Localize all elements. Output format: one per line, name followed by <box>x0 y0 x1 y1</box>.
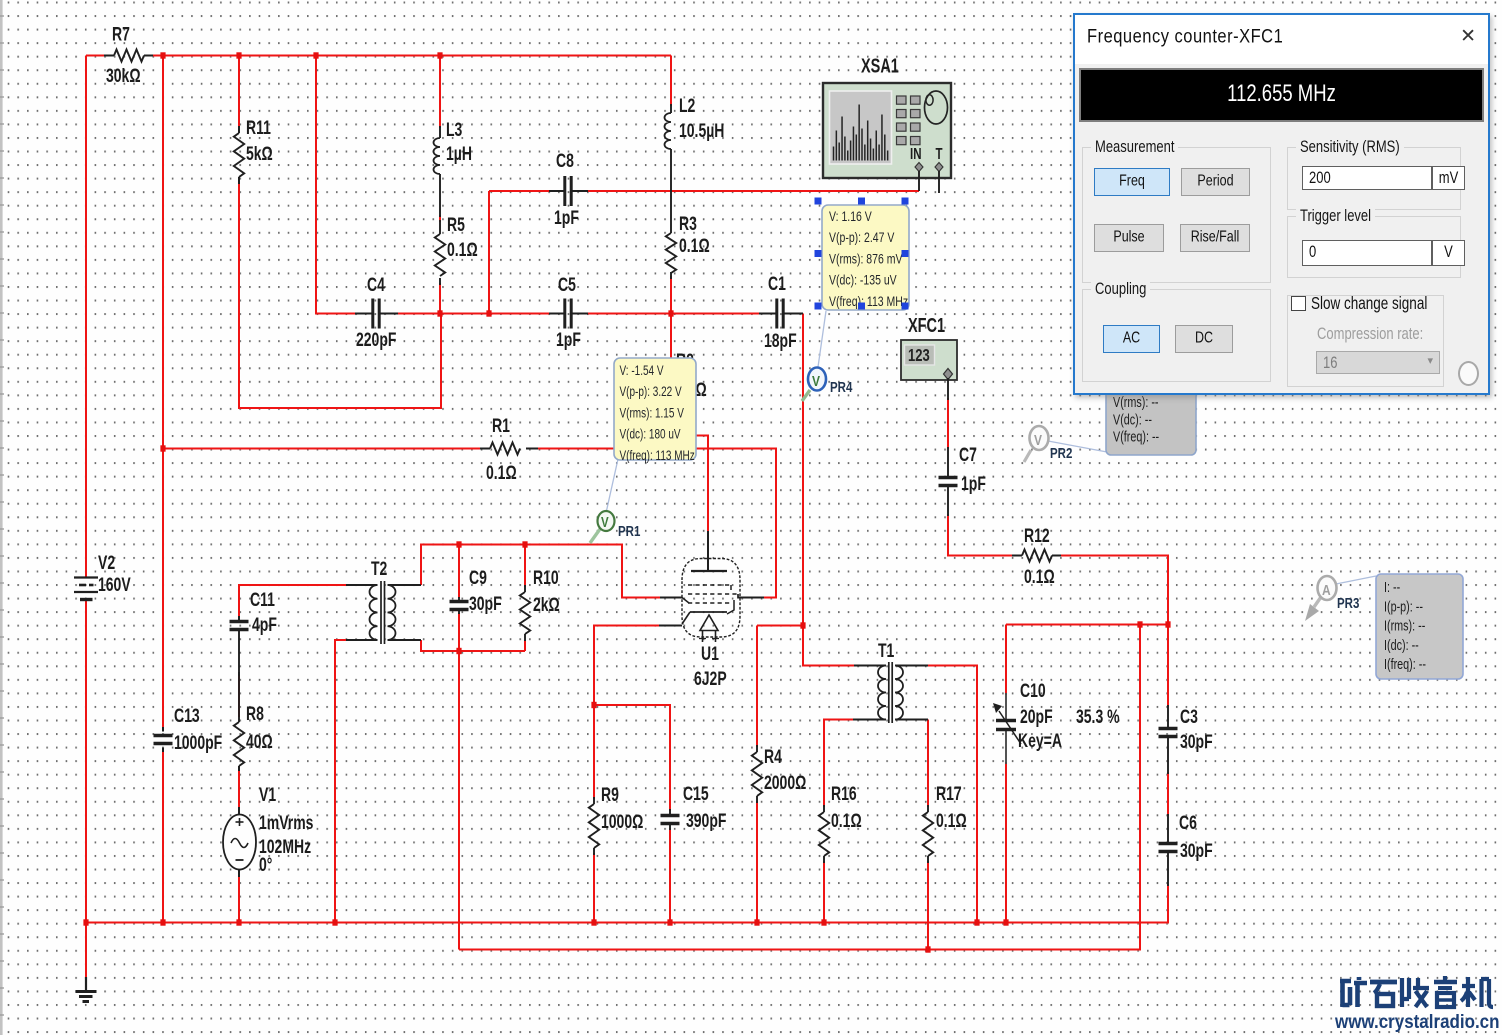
junction node (335,922.5) <box>332 919 337 925</box>
resistor R9 1000 <box>593 797 595 804</box>
svg-text:0.1Ω: 0.1Ω <box>1024 566 1055 588</box>
svg-text:2000Ω: 2000Ω <box>764 772 806 794</box>
wire left rail x=86 (V2 branch) <box>85 56 87 578</box>
resistor R12 0.1 <box>1012 555 1022 557</box>
svg-text:R8: R8 <box>246 703 264 725</box>
svg-text:5kΩ: 5kΩ <box>246 143 273 165</box>
junction node (489,313.5) <box>486 310 491 316</box>
svg-text:18pF: 18pF <box>764 330 797 352</box>
junction node (671,313.5) <box>668 310 673 316</box>
resistor R7 30k <box>104 55 114 57</box>
svg-text:0.1Ω: 0.1Ω <box>936 810 967 832</box>
svg-text:C4: C4 <box>367 274 385 296</box>
wire rail x=671 (L2/R3/R2 plate rail) <box>670 56 672 107</box>
XSA1 IN lead <box>918 171 920 191</box>
svg-text:220pF: 220pF <box>356 329 396 351</box>
svg-text:C3: C3 <box>1180 706 1198 728</box>
inductor L2 10.5uH <box>670 104 672 113</box>
svg-text:0.1Ω: 0.1Ω <box>831 810 862 832</box>
svg-text:R12: R12 <box>1024 525 1050 547</box>
wire C10 branch x=1006 <box>1005 625 1007 696</box>
capacitor C4 220pF <box>355 313 373 315</box>
svg-text:0.1Ω: 0.1Ω <box>447 239 478 261</box>
svg-text:R10: R10 <box>533 567 559 589</box>
svg-text:V2: V2 <box>98 552 115 574</box>
svg-text:V(rms): 1.15 V: V(rms): 1.15 V <box>620 405 684 421</box>
wire C8 row y=191 to XSA1 IN <box>489 190 549 192</box>
svg-text:PR1: PR1 <box>618 523 641 540</box>
svg-text:10.5µH: 10.5µH <box>679 120 724 142</box>
PR4 selection handles <box>815 198 822 205</box>
svg-text:C6: C6 <box>1179 812 1197 834</box>
wire top V+ rail y=55.5 <box>86 55 106 57</box>
svg-text:1pF: 1pF <box>961 473 986 495</box>
wire C11-R8-V1 chain x=239 <box>238 674 240 717</box>
junction node (803,625.5) <box>800 622 805 628</box>
resistor R17 0.1 <box>927 805 929 812</box>
svg-text:V(freq): 113 MHz: V(freq): 113 MHz <box>829 293 908 309</box>
wire T2 primary bottom to bus <box>335 640 346 923</box>
junction node (440,313.5) <box>437 310 442 316</box>
wire y=624.5 tie row <box>1006 624 1168 626</box>
tube heater <box>700 615 718 631</box>
capacitor C8 1pF <box>549 190 565 192</box>
svg-text:C15: C15 <box>683 783 709 805</box>
junction node (977,922.5) <box>974 919 979 925</box>
svg-text:A: A <box>1322 582 1331 599</box>
wire rail x=163 (R1 tap / C13) <box>162 56 164 729</box>
svg-text:C5: C5 <box>558 274 576 296</box>
probe data box PR3 (gray) <box>1376 574 1463 679</box>
svg-text:L2: L2 <box>679 95 695 117</box>
wire rail x=440 (L3/R5) <box>439 56 441 129</box>
probe PR4 (blue V) <box>818 311 826 367</box>
tube grid2 pin right <box>737 594 739 599</box>
svg-text:V: V <box>812 373 820 390</box>
svg-text:T1: T1 <box>878 640 894 662</box>
wire T2 primary top (C11 branch) <box>239 585 346 618</box>
svg-text:I(dc): --: I(dc): -- <box>1384 636 1419 653</box>
svg-text:160V: 160V <box>98 574 131 596</box>
svg-text:R11: R11 <box>246 117 271 139</box>
tube grid pin left <box>660 597 682 599</box>
XFC1 pin <box>944 369 953 380</box>
svg-text:I(p-p): --: I(p-p): -- <box>1384 598 1423 615</box>
tube grids (dashed) <box>688 584 731 586</box>
probe PR3 (gray A) <box>1336 576 1376 584</box>
wire R12 to C3 drop <box>1059 556 1168 625</box>
resistor R10 2k <box>524 585 526 592</box>
svg-text:C10: C10 <box>1020 680 1046 702</box>
vacuum tube U1 6J2P <box>682 559 740 638</box>
resistor R1 0.1 <box>480 448 490 450</box>
svg-text:1000pF: 1000pF <box>174 732 222 754</box>
wire rail x=239 (R11 branch) <box>238 56 240 129</box>
svg-text:6J2P: 6J2P <box>694 668 727 690</box>
svg-text:V: -1.54 V: V: -1.54 V <box>620 362 664 378</box>
svg-text:V(dc): -135 uV: V(dc): -135 uV <box>829 272 897 288</box>
transformer T1 <box>854 665 886 667</box>
svg-text:30pF: 30pF <box>1180 731 1213 753</box>
capacitor C1 18pF <box>759 313 777 315</box>
XSA1 IN pin <box>915 163 923 172</box>
ac source V1 1mVrms 102MHz <box>238 807 240 815</box>
svg-text:www.crystalradio.cn: www.crystalradio.cn <box>1334 1010 1499 1032</box>
svg-text:C8: C8 <box>556 150 574 172</box>
svg-text:30kΩ: 30kΩ <box>106 65 141 87</box>
wire rail x=316 to C4 <box>316 56 355 314</box>
svg-text:V(p-p): 2.47 V: V(p-p): 2.47 V <box>829 230 895 246</box>
svg-text:C13: C13 <box>174 705 200 727</box>
wire XFC1 to C7 <box>947 398 949 449</box>
junction node (163,55.5) <box>160 52 165 58</box>
tube cathode pin <box>659 625 682 627</box>
wire R10 branch x=525 <box>524 545 526 588</box>
junction node (670,922.5) <box>667 919 672 925</box>
XSA1 T pin <box>935 163 943 172</box>
XSA1 T stub <box>938 171 940 193</box>
svg-text:C1: C1 <box>768 273 786 295</box>
canvas left edge strip <box>0 0 3 1035</box>
svg-text:Key=A: Key=A <box>1018 730 1062 752</box>
inductor L3 1uH <box>439 126 441 138</box>
svg-text:2kΩ: 2kΩ <box>533 594 560 616</box>
svg-text:V: 1.16 V: V: 1.16 V <box>829 208 872 224</box>
svg-text:V(rms): 876 mV: V(rms): 876 mV <box>829 251 903 267</box>
svg-text:V(rms): --: V(rms): -- <box>1113 393 1159 410</box>
svg-text:R3: R3 <box>679 213 697 235</box>
resistor R3 0.1 <box>670 272 672 279</box>
junction node (1168,624.5) <box>1165 621 1170 627</box>
junction node (440,55.5) <box>437 52 442 58</box>
wire C7 to R12 row <box>948 514 1013 556</box>
svg-text:T2: T2 <box>371 558 387 580</box>
junction node (459,651) <box>456 648 461 654</box>
svg-text:V: V <box>601 514 609 531</box>
svg-text:R7: R7 <box>112 23 130 45</box>
junction node (163,922.5) <box>160 919 165 925</box>
capacitor C7 1pF <box>947 447 949 478</box>
capacitor C3 30pF <box>1167 705 1169 729</box>
junction node (86,922.5) <box>83 919 88 925</box>
svg-text:V(dc): 180 uV: V(dc): 180 uV <box>620 426 681 442</box>
wire C1 to T1 drop x=803 <box>803 314 854 666</box>
svg-text:1µH: 1µH <box>446 143 472 165</box>
junction node (1140,624.5) <box>1137 621 1142 627</box>
spectrum analyzer XSA1 <box>823 83 951 178</box>
svg-text:V(p-p): 3.22 V: V(p-p): 3.22 V <box>620 384 682 400</box>
svg-text:R5: R5 <box>447 214 465 236</box>
probe data box PR4 (yellow, selected) <box>822 205 909 310</box>
wire screen tap to R4 <box>757 625 803 627</box>
svg-text:4pF: 4pF <box>252 614 277 636</box>
ground symbol <box>85 977 87 991</box>
wire hidden corner to tube plate <box>696 436 708 532</box>
svg-text:0.1Ω: 0.1Ω <box>486 462 517 484</box>
wire tube cathode to R9/C15 <box>594 626 659 706</box>
svg-text:L3: L3 <box>446 119 462 141</box>
wire T1 secondary bottom to R17 <box>927 720 929 808</box>
junction node (594,922.5) <box>591 919 596 925</box>
svg-text:IN: IN <box>910 144 921 162</box>
svg-text:PR3: PR3 <box>1337 595 1359 612</box>
svg-text:R4: R4 <box>764 746 782 768</box>
junction node (459,544.5) <box>456 541 461 547</box>
wire R9 branch <box>593 705 595 799</box>
junction node (824,922.5) <box>821 919 826 925</box>
transformer T2 <box>346 584 378 586</box>
wire T1 secondary top to right drop <box>928 666 977 923</box>
capacitor C9 30pF <box>458 597 460 602</box>
wire cathode rail x=459 down to bus2 <box>458 651 460 950</box>
junction node (757,922.5) <box>754 919 759 925</box>
svg-text:C9: C9 <box>469 567 487 589</box>
capacitor C5 1pF <box>549 313 565 315</box>
resistor R11 5k <box>238 126 240 133</box>
resistor R8 40 <box>238 672 240 722</box>
svg-text:V: V <box>1034 432 1042 449</box>
svg-text:1pF: 1pF <box>556 329 581 351</box>
capacitor C13 1000pF <box>162 727 164 732</box>
svg-text:I(freq): --: I(freq): -- <box>1384 656 1426 673</box>
junction node (594,705) <box>591 702 596 708</box>
wire C4-C5-C1 row y=313.5 <box>397 313 549 315</box>
svg-text:C7: C7 <box>959 444 977 466</box>
capacitor C11 4pF <box>238 616 240 622</box>
junction node (928,949.5) <box>925 946 930 952</box>
junction node (316,55.5) <box>313 52 318 58</box>
svg-text:V1: V1 <box>259 784 276 806</box>
wire rail x=489 (C8 left leg) <box>488 191 490 314</box>
svg-text:35.3 %: 35.3 % <box>1076 706 1120 728</box>
junction node (239,922.5) <box>236 919 241 925</box>
capacitor C6 30pF <box>1167 814 1169 844</box>
svg-text:1pF: 1pF <box>554 207 579 229</box>
svg-text:20pF: 20pF <box>1020 706 1053 728</box>
variable capacitor C10 20pF Key=A <box>1005 693 1007 721</box>
svg-text:I: --: I: -- <box>1384 578 1400 595</box>
svg-text:R17: R17 <box>936 783 962 805</box>
svg-text:R1: R1 <box>492 415 510 437</box>
svg-text:0.1Ω: 0.1Ω <box>679 235 710 257</box>
svg-text:30pF: 30pF <box>469 593 502 615</box>
wire ground stub below bus <box>85 923 87 980</box>
probe data box PR1 (yellow) <box>614 358 696 460</box>
wire T1 primary bottom to R16 <box>824 720 853 808</box>
svg-text:30pF: 30pF <box>1180 840 1213 862</box>
frequency counter dialog XFC1 <box>1073 13 1490 395</box>
resistor R4 2000 <box>756 745 758 752</box>
wire C9 branch x=459 <box>458 545 460 599</box>
junction node (1006,922.5) <box>1003 919 1008 925</box>
junction node (163,448.5) <box>160 445 165 451</box>
svg-text:I(rms): --: I(rms): -- <box>1384 617 1425 634</box>
probe PR2 (gray V) <box>1048 441 1107 452</box>
svg-text:390pF: 390pF <box>686 810 726 832</box>
junction node (525,544.5) <box>522 541 527 547</box>
svg-text:123: 123 <box>908 346 930 365</box>
svg-text:XFC1: XFC1 <box>908 314 945 337</box>
svg-text:V(freq): --: V(freq): -- <box>1113 428 1159 445</box>
frequency counter icon XFC1 <box>901 340 957 380</box>
svg-text:40Ω: 40Ω <box>246 731 273 753</box>
svg-text:XSA1: XSA1 <box>861 54 899 77</box>
junction node (239,55.5) <box>236 52 241 58</box>
tube cathode <box>730 585 732 590</box>
svg-text:R16: R16 <box>831 783 857 805</box>
tube plate pin <box>707 531 709 571</box>
svg-text:U1: U1 <box>701 643 719 665</box>
wire R1 row y=448.5 <box>163 448 481 450</box>
svg-text:1mVrms: 1mVrms <box>259 812 313 834</box>
svg-text:PR4: PR4 <box>830 379 853 396</box>
capacitor C15 390pF <box>669 809 671 816</box>
svg-text:T: T <box>936 144 943 162</box>
battery V2 160V <box>74 576 98 578</box>
svg-text:PR2: PR2 <box>1050 445 1072 462</box>
wire C9/R10 bottom tie y=651 <box>421 640 525 651</box>
svg-text:R9: R9 <box>601 784 619 806</box>
svg-text:C11: C11 <box>250 589 275 611</box>
svg-text:V(dc): --: V(dc): -- <box>1113 411 1152 428</box>
svg-text:1000Ω: 1000Ω <box>601 811 643 833</box>
resistor R16 0.1 <box>823 805 825 812</box>
wire C3/C6 branch x=1168 <box>1167 625 1169 708</box>
resistor R5 0.1 <box>439 220 441 234</box>
probe PR1 (green V) <box>606 459 618 513</box>
svg-text:V(freq): 113 MHz: V(freq): 113 MHz <box>620 447 695 463</box>
wire ground bus y=922.5 <box>86 922 1169 924</box>
watermark logo (crystalradio) <box>1340 976 1493 1007</box>
probe data box PR2 (gray, partly hidden) <box>1106 345 1196 455</box>
wire T2 secondary top row y=544.5 <box>421 545 660 598</box>
wire bus2 y=949.5 <box>459 625 1140 950</box>
svg-text:0°: 0° <box>259 854 273 876</box>
